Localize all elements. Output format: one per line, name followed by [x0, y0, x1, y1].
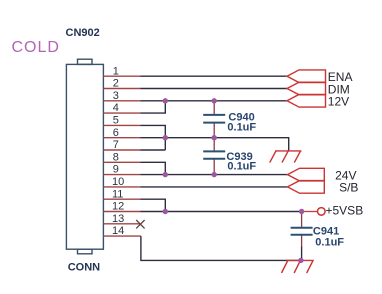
pin 14 stub [103, 235, 140, 237]
junction node pin4/12V [163, 98, 168, 103]
off-page flag S/B [288, 181, 325, 194]
ground symbol lower (GND net of pin 14) [282, 260, 314, 273]
wire pin7 to gnd net [141, 149, 166, 151]
svg-text:12V: 12V [328, 95, 349, 109]
power tap +5VSB stub [302, 211, 318, 213]
junction node pins5-7 gnd [163, 135, 168, 140]
junction node C940/C939 mid [212, 135, 217, 140]
junction node C941 top [299, 209, 304, 214]
capacitor C941 plates [291, 228, 313, 235]
off-page flag ENA [287, 70, 326, 83]
pin 13 stub [103, 223, 140, 225]
wire net GND pin6 [141, 138, 289, 151]
wire pin5 to gnd net [141, 125, 166, 150]
svg-text:COLD: COLD [12, 39, 60, 56]
svg-text:9: 9 [113, 164, 119, 176]
svg-text:+5VSB: +5VSB [326, 204, 364, 218]
wire net DIM pin2 [141, 88, 288, 90]
capacitor C939 pins (maroon) [213, 138, 215, 175]
pin 11 stub [103, 198, 140, 200]
junction node pin8/24V [163, 172, 168, 177]
pin 10 stub [103, 186, 140, 188]
pin numbers 1-14 [112, 65, 124, 237]
wire net +5VSB pin12 [141, 211, 302, 213]
ground symbol upper (GND net of pins 5-7) [270, 151, 302, 163]
capacitor C939 plates [203, 151, 225, 158]
capacitor C940 pins (maroon) [213, 101, 215, 138]
wire net 24V pin9 [141, 174, 288, 176]
wire pin4 to 12V net [141, 101, 166, 113]
wire pin8 to 24V net [141, 162, 166, 174]
svg-text:0.1uF: 0.1uF [227, 161, 256, 173]
wire C941 to gnd [301, 247, 303, 261]
svg-text:2: 2 [113, 78, 119, 90]
wire pin14 to gnd [141, 236, 301, 260]
svg-text:C941: C941 [313, 225, 339, 237]
pin 6 stub [103, 137, 140, 139]
junction node C939 bottom [212, 172, 217, 177]
svg-text:5: 5 [113, 115, 119, 127]
pin 9 stub [103, 174, 140, 176]
svg-text:0.1uF: 0.1uF [315, 237, 344, 249]
pin 1 stub [103, 75, 140, 77]
off-page flag 24V [288, 168, 325, 181]
pin 3 stub [103, 100, 140, 102]
wire pin11 to +5VSB net [141, 199, 166, 211]
pin 5 stub [103, 124, 140, 126]
pin 4 stub [103, 112, 140, 114]
svg-text:8: 8 [113, 151, 119, 163]
junction node C940 top [212, 98, 217, 103]
no-connect X on pin 13 [136, 220, 144, 228]
off-page flag DIM [287, 82, 326, 95]
pin 12 stub [103, 211, 140, 213]
junction node pin11/+5VSB [163, 209, 168, 214]
pin 8 stub [103, 161, 140, 163]
wire net S/B pin10 [141, 186, 288, 188]
junction node C941 bottom / gnd [298, 258, 303, 263]
connector CN902 body [66, 59, 103, 254]
svg-text:0.1uF: 0.1uF [227, 121, 256, 133]
net wires (navy) [141, 76, 302, 260]
svg-text:CN902: CN902 [66, 27, 100, 39]
connector pin stubs (red) [103, 76, 140, 236]
pin 2 stub [103, 88, 140, 90]
capacitor C940 plates [203, 115, 225, 123]
svg-text:S/B: S/B [339, 180, 358, 194]
pin 7 stub [103, 149, 140, 151]
svg-text:3: 3 [113, 90, 119, 102]
off-page flag 12V [287, 95, 326, 108]
svg-text:13: 13 [112, 213, 124, 225]
wire net 12V pin3 [141, 100, 288, 102]
svg-text:14: 14 [112, 225, 124, 237]
svg-text:4: 4 [113, 102, 119, 114]
svg-text:CONN: CONN [68, 261, 100, 273]
capacitor C941 pins (maroon) [301, 212, 303, 247]
power tap +5VSB circle [318, 208, 326, 216]
wire net ENA pin1 [141, 75, 288, 77]
